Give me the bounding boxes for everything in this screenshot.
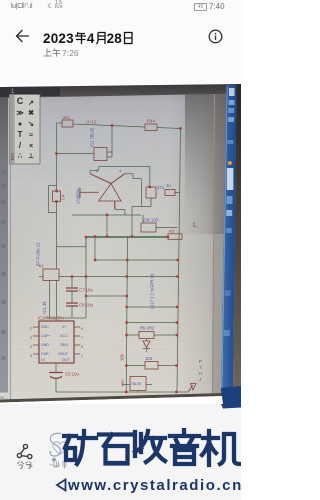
wire H y307 [127,306,177,308]
svg-text:6: 6 [81,345,83,349]
resistor R4 [145,124,157,131]
svg-text:≈: ≈ [29,132,33,139]
capacitor C5 10u [49,373,63,379]
back arrow [14,29,30,43]
capacitor C9 1u [165,190,175,196]
wire V x86 [85,237,87,318]
IC U2 7660CPA [39,321,74,363]
svg-text:1u: 1u [166,183,171,188]
IC2 pin text [41,325,141,386]
svg-text:103: 103 [145,356,153,361]
wire caps stub V x72 [44,277,86,322]
机 [202,431,240,465]
svg-text:VOUT: VOUT [58,352,69,356]
url line [55,478,67,492]
svg-text:E!…: E!… [1,395,9,400]
wire V3 long right [177,129,181,393]
blue labels [96,168,171,361]
svg-text:H: H [199,371,202,376]
regulator IC1 78L05 [94,148,107,161]
wire 1u out [175,192,180,194]
favorite (heart) icon faint behind watermark [52,441,68,456]
svg-text:C8 10u: C8 10u [79,303,93,308]
svg-text:GND: GND [41,343,49,347]
CAD window right border [213,86,215,400]
wire below IC2 [56,363,188,392]
right dark edge [233,84,241,389]
info icon [208,29,223,44]
svg-text:78L0: 78L0 [60,343,68,347]
svg-text:LV: LV [41,358,46,362]
分享 label [17,461,33,469]
svg-text:≫: ≫ [16,110,23,117]
svg-text:22k 103: 22k 103 [143,218,159,223]
diode D1 [143,341,150,349]
wire C4 bypass loop [49,186,57,213]
wire IC1 left pin to V1 [57,153,95,155]
resistor R5 [62,120,73,127]
svg-text:47u: 47u [157,185,165,190]
svg-text:C4: C4 [61,194,66,200]
wire H y365.5 through RB [126,365,177,367]
top white wedge [0,84,241,87]
wire TL431 row H y276.5 [39,276,177,278]
sheet edge line [10,97,12,401]
photo bottom edge + white wedge [0,394,241,401]
svg-text:8: 8 [81,327,83,331]
share icon [16,442,34,461]
schematic sheet background [0,84,241,404]
wire H y296 [86,295,127,297]
PHOTO AREA [0,84,241,404]
svg-text:J: J [199,377,201,382]
svg-text:T: T [199,365,202,370]
svg-text:3: 3 [30,336,32,340]
capacitor C7 and capacitor C8 [66,288,78,306]
收 [135,431,165,462]
title: 2023年4月28日 [43,31,134,45]
svg-text:L: L [193,222,197,229]
svg-text:1: 1 [81,354,83,358]
svg-text:+5V: +5V [120,379,125,387]
wire diode stem [146,339,148,353]
svg-text:V+: V+ [62,325,67,329]
svg-text:OUT: OUT [62,358,70,362]
svg-text:2k2: 2k2 [63,115,71,120]
status bar [0,0,241,14]
svg-text:●: ● [18,121,22,128]
wire V1 left x56.5 [57,123,87,269]
watermark text 矿石收音机 (drawn) [62,428,241,468]
svg-text:CAP+: CAP+ [41,334,51,338]
svg-text:R44: R44 [147,119,155,124]
svg-text:EI3: EI3 [10,153,15,160]
capacitor C4 [53,191,61,202]
wire junction dots [55,124,181,393]
svg-text:✖: ✖ [28,109,34,117]
svg-text:CAP-: CAP- [41,352,50,356]
svg-text:4: 4 [30,345,32,349]
svg-text:P: P [199,359,202,364]
svg-text:10k: 10k [120,353,125,361]
svg-text:IC2 7660CPA: IC2 7660CPA [38,316,64,321]
toolbar window [10,95,41,165]
capacitor C6 47u [146,187,156,198]
resistor R9 [139,332,154,339]
components (dark red) [33,120,196,392]
op-amp bottom pin [114,201,116,210]
音 [170,430,199,464]
wire H y322.5 [127,322,177,324]
矿 [63,431,96,464]
svg-text:⊥: ⊥ [28,152,34,160]
石 [99,435,131,464]
taskbar bottom dark block [221,386,241,408]
wire R22k out [156,227,177,229]
wire H y335 through RA [126,334,177,336]
svg-text:T: T [18,130,23,139]
svg-text:L117 2.2 NGPR.19: L117 2.2 NGPR.19 [150,273,155,309]
svg-text:∴: ∴ [18,153,23,160]
wire V2 junction to IC1 [107,126,112,158]
svg-text:78L05: 78L05 [131,382,141,386]
svg-text:5: 5 [30,354,32,358]
desktop gap right of sheet [213,84,228,404]
wires below TL431 [50,281,57,319]
svg-text:R9 2R2: R9 2R2 [140,326,155,331]
svg-text:IC1 78L05: IC1 78L05 [90,127,95,147]
ground GND [188,384,196,393]
wire V x126.5 [126,237,127,392]
header [0,14,241,84]
svg-text:×: × [29,143,33,150]
blue taskbar strip (right) [221,85,237,398]
subtitle 上午7:26 [43,48,79,58]
resistor R8 [145,362,158,370]
svg-text:7: 7 [81,336,83,340]
wire opamp bottom stair [72,179,151,237]
wire opamp top loop [90,167,150,188]
regulator IC3 78L05 [130,377,146,391]
svg-text:VCC: VCC [60,334,68,338]
red labels [30,115,196,398]
op-amp U1 LM358N [99,184,121,202]
svg-text:+C1 35: +C1 35 [42,301,47,315]
svg-text:C: C [17,96,24,106]
left gray strip [0,84,8,404]
resistor R6 22k [141,223,156,232]
svg-text:↗: ↗ [28,100,34,107]
wire bus net [86,236,168,238]
svg-text:2: 2 [30,327,32,331]
watermark logo [48,432,68,468]
resistor R7 [168,234,182,240]
bottom bar background [0,404,241,500]
op-amp left pin [80,188,99,199]
regulator U3 TL431 [43,269,59,281]
svg-text:R7: R7 [169,229,175,234]
taskbar block spill below photo [220,404,241,410]
svg-text:BT F-23A 12: BT F-23A 12 [36,242,41,266]
svg-text:C5 10u: C5 10u [65,372,79,377]
svg-text:LM358N: LM358N [76,188,81,204]
svg-text:↘: ↘ [28,121,34,128]
wire IC3 stubs [122,385,152,393]
svg-text:U+12: U+12 [86,120,97,125]
wire V x95 + H y260 [95,237,178,260]
top dark band of photo [0,84,241,98]
svg-text:C7 10u: C7 10u [79,288,93,293]
svg-text:OSC: OSC [41,325,49,329]
wire top H (slight sag to right) [57,123,181,129]
